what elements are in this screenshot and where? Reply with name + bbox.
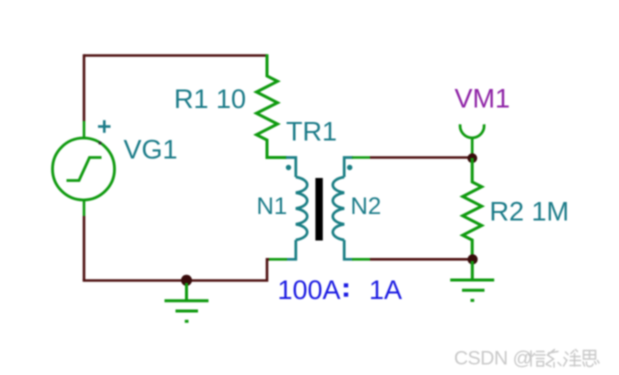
transformer TR1 primary winding N1 (286, 158, 307, 260)
watermark CJK characters drawn as strokes (528, 350, 599, 368)
phase dot N1 (286, 165, 291, 170)
voltmeter VM1 probe (460, 124, 484, 158)
ground left under bottom wire (165, 283, 209, 321)
svg-text:VG1: VG1 (124, 135, 178, 165)
wire top right horizontal to VM1 junction (370, 156, 472, 159)
wire bottom horizontal from VG1 to transformer step (83, 259, 270, 280)
node junction dot at R2 bottom (468, 254, 478, 264)
wire VG1 top pin (green terminal) (83, 121, 86, 139)
wire green segment from N2 top (352, 156, 370, 159)
wire top horizontal from VG1 to R1 (84, 54, 267, 57)
node junction dot at VM1/R2 top (467, 153, 477, 163)
transformer core bar (315, 178, 322, 241)
svg-text:N1: N1 (257, 193, 288, 220)
ground right under R2 (450, 261, 494, 300)
svg-text:N2: N2 (351, 193, 382, 220)
transformer TR1 secondary winding N2 (333, 158, 353, 260)
svg-text:R1 10: R1 10 (174, 84, 246, 114)
wire green segment into N1 bottom (269, 258, 287, 261)
resistor R2 (463, 158, 482, 259)
wire green segment from N2 bottom (352, 258, 370, 261)
wire left vertical from top wire down to VG1 (83, 54, 86, 121)
resistor R1 (257, 54, 288, 157)
wire VG1 bottom pin (green terminal) (83, 200, 86, 216)
wire left vertical from VG1 down to bottom wire (83, 216, 86, 281)
phase dot N2 (347, 165, 352, 170)
wire bottom right horizontal to R2 junction (370, 258, 472, 261)
svg-text:CSDN @: CSDN @ (454, 348, 532, 370)
svg-text:VM1: VM1 (455, 84, 511, 114)
plus sign of VG1 (98, 120, 111, 133)
node junction dot at left ground (181, 275, 192, 286)
label fullwidth colon (344, 283, 348, 287)
svg-text:R2 1M: R2 1M (490, 197, 570, 227)
svg-text:TR1: TR1 (286, 117, 337, 147)
svg-text:100A: 100A (278, 275, 341, 305)
svg-text:1A: 1A (369, 275, 402, 305)
anchor dot near VG1 (98, 141, 101, 144)
voltage generator VG1 (53, 138, 115, 200)
